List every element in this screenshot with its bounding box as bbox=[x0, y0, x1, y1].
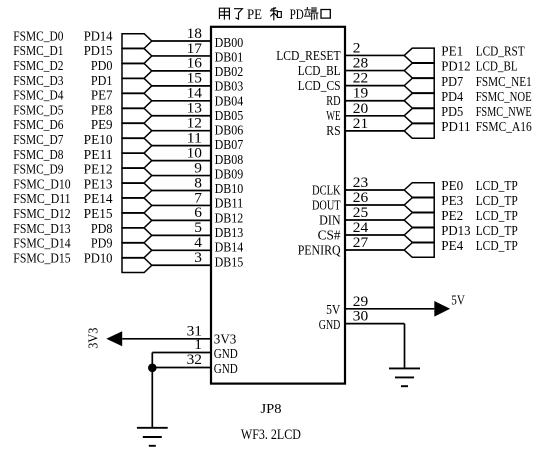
svg-text:10: 10 bbox=[187, 145, 202, 161]
svg-text:FSMC_D8: FSMC_D8 bbox=[13, 147, 63, 162]
svg-text:15: 15 bbox=[187, 71, 202, 87]
svg-text:3: 3 bbox=[194, 250, 202, 266]
svg-text:PD14: PD14 bbox=[84, 28, 113, 43]
svg-text:DB09: DB09 bbox=[215, 166, 244, 181]
svg-text:8: 8 bbox=[194, 175, 202, 191]
svg-text:LCD_BL: LCD_BL bbox=[476, 59, 518, 74]
svg-text:FSMC_D12: FSMC_D12 bbox=[13, 206, 70, 221]
svg-text:29: 29 bbox=[353, 294, 368, 310]
svg-text:LCD_CS: LCD_CS bbox=[298, 78, 341, 93]
svg-text:LCD_TP: LCD_TP bbox=[476, 238, 518, 253]
svg-text:PE4: PE4 bbox=[441, 238, 463, 253]
svg-text:FSMC_D4: FSMC_D4 bbox=[13, 88, 63, 103]
svg-text:FSMC_D10: FSMC_D10 bbox=[13, 176, 71, 191]
svg-text:LCD_RESET: LCD_RESET bbox=[276, 48, 340, 63]
svg-text:FSMC_NE1: FSMC_NE1 bbox=[476, 74, 532, 89]
svg-text:23: 23 bbox=[353, 175, 368, 191]
svg-text:30: 30 bbox=[353, 309, 368, 325]
svg-text:13: 13 bbox=[187, 101, 202, 117]
svg-text:DB15: DB15 bbox=[215, 254, 244, 269]
svg-text:3V3: 3V3 bbox=[214, 332, 237, 347]
svg-text:PENIRQ: PENIRQ bbox=[298, 242, 341, 257]
svg-text:PD15: PD15 bbox=[84, 43, 113, 58]
svg-text:6: 6 bbox=[194, 205, 202, 221]
svg-text:26: 26 bbox=[353, 190, 368, 206]
svg-text:GND: GND bbox=[214, 346, 238, 361]
svg-text:PD4: PD4 bbox=[441, 89, 463, 104]
svg-text:LCD_TP: LCD_TP bbox=[476, 193, 518, 208]
svg-text:DIN: DIN bbox=[319, 212, 341, 227]
svg-text:DB07: DB07 bbox=[215, 137, 244, 152]
svg-text:PD: PD bbox=[290, 7, 304, 23]
svg-text:DB06: DB06 bbox=[215, 123, 244, 138]
svg-text:PE9: PE9 bbox=[91, 117, 113, 132]
svg-text:DB11: DB11 bbox=[215, 196, 244, 211]
svg-text:PE0: PE0 bbox=[441, 178, 463, 193]
svg-text:LCD_TP: LCD_TP bbox=[476, 178, 518, 193]
svg-text:JP8: JP8 bbox=[261, 402, 282, 417]
svg-text:FSMC_D7: FSMC_D7 bbox=[13, 132, 63, 147]
svg-text:DB08: DB08 bbox=[215, 152, 244, 167]
svg-text:1: 1 bbox=[194, 337, 202, 353]
svg-text:9: 9 bbox=[194, 160, 202, 176]
svg-text:FSMC_D14: FSMC_D14 bbox=[13, 236, 71, 251]
svg-text:FSMC_D3: FSMC_D3 bbox=[13, 73, 63, 88]
svg-text:PE10: PE10 bbox=[84, 132, 113, 147]
svg-text:PD13: PD13 bbox=[441, 223, 471, 238]
svg-text:FSMC_D2: FSMC_D2 bbox=[13, 58, 63, 73]
svg-text:PE11: PE11 bbox=[84, 147, 113, 162]
svg-text:FSMC_D5: FSMC_D5 bbox=[13, 102, 63, 117]
svg-text:19: 19 bbox=[353, 86, 368, 102]
svg-text:PE14: PE14 bbox=[84, 191, 113, 206]
svg-text:PD5: PD5 bbox=[441, 104, 463, 119]
svg-text:27: 27 bbox=[353, 235, 368, 251]
svg-text:FSMC_D1: FSMC_D1 bbox=[13, 43, 63, 58]
svg-text:PE13: PE13 bbox=[84, 176, 113, 191]
svg-text:PD0: PD0 bbox=[91, 58, 113, 73]
svg-text:FSMC_D11: FSMC_D11 bbox=[13, 191, 70, 206]
svg-text:5V: 5V bbox=[451, 293, 465, 308]
svg-text:FSMC_A16: FSMC_A16 bbox=[476, 119, 532, 134]
svg-text:18: 18 bbox=[187, 26, 202, 42]
svg-text:PD7: PD7 bbox=[441, 74, 463, 89]
svg-text:LCD_BL: LCD_BL bbox=[298, 63, 341, 78]
svg-text:PE2: PE2 bbox=[441, 208, 463, 223]
svg-text:PE3: PE3 bbox=[441, 193, 463, 208]
svg-text:DB10: DB10 bbox=[215, 181, 244, 196]
svg-text:22: 22 bbox=[353, 71, 368, 87]
svg-text:DOUT: DOUT bbox=[312, 197, 341, 212]
svg-text:FSMC_D15: FSMC_D15 bbox=[13, 250, 71, 265]
svg-text:LCD_TP: LCD_TP bbox=[476, 208, 518, 223]
svg-text:11: 11 bbox=[187, 130, 202, 146]
svg-text:32: 32 bbox=[187, 352, 202, 368]
svg-text:PD8: PD8 bbox=[91, 221, 113, 236]
svg-text:PE12: PE12 bbox=[84, 162, 113, 177]
svg-text:PE7: PE7 bbox=[91, 88, 113, 103]
svg-text:PE15: PE15 bbox=[84, 206, 113, 221]
svg-text:14: 14 bbox=[187, 86, 203, 102]
svg-text:RD: RD bbox=[326, 93, 340, 108]
svg-text:21: 21 bbox=[353, 116, 368, 132]
svg-text:DB03: DB03 bbox=[215, 79, 244, 94]
svg-text:20: 20 bbox=[353, 101, 368, 117]
svg-text:25: 25 bbox=[353, 205, 368, 221]
svg-text:WE: WE bbox=[326, 108, 340, 123]
svg-text:24: 24 bbox=[353, 220, 369, 236]
svg-text:FSMC_D9: FSMC_D9 bbox=[13, 162, 63, 177]
svg-text:FSMC_D0: FSMC_D0 bbox=[13, 28, 63, 43]
svg-text:7: 7 bbox=[194, 190, 202, 206]
svg-text:PD12: PD12 bbox=[441, 59, 470, 74]
svg-text:PE8: PE8 bbox=[91, 102, 113, 117]
svg-text:DB14: DB14 bbox=[215, 240, 244, 255]
svg-text:DB13: DB13 bbox=[215, 225, 244, 240]
svg-text:LCD_TP: LCD_TP bbox=[476, 223, 518, 238]
svg-text:DB12: DB12 bbox=[215, 210, 244, 225]
svg-text:12: 12 bbox=[187, 116, 202, 132]
svg-text:4: 4 bbox=[194, 235, 202, 251]
svg-text:FSMC_D13: FSMC_D13 bbox=[13, 221, 71, 236]
svg-text:5: 5 bbox=[194, 220, 202, 236]
svg-text:CS#: CS# bbox=[318, 227, 341, 242]
svg-text:28: 28 bbox=[353, 56, 368, 72]
svg-text:DB01: DB01 bbox=[215, 49, 244, 64]
svg-text:RS: RS bbox=[326, 123, 340, 138]
svg-text:PD9: PD9 bbox=[91, 236, 113, 251]
svg-text:PD11: PD11 bbox=[441, 119, 470, 134]
svg-text:16: 16 bbox=[187, 56, 202, 72]
svg-text:DB05: DB05 bbox=[215, 108, 244, 123]
svg-text:WF3. 2LCD: WF3. 2LCD bbox=[241, 427, 301, 443]
svg-text:3V3: 3V3 bbox=[85, 327, 100, 348]
svg-text:LCD_RST: LCD_RST bbox=[476, 44, 525, 59]
svg-text:DCLK: DCLK bbox=[312, 182, 341, 197]
svg-text:PE: PE bbox=[247, 7, 262, 23]
svg-text:PE1: PE1 bbox=[441, 44, 463, 59]
svg-text:5V: 5V bbox=[326, 302, 341, 317]
svg-text:2: 2 bbox=[353, 40, 361, 56]
svg-text:PD10: PD10 bbox=[84, 250, 113, 265]
svg-text:DB02: DB02 bbox=[215, 64, 244, 79]
svg-text:FSMC_NOE: FSMC_NOE bbox=[476, 89, 532, 104]
svg-text:DB04: DB04 bbox=[215, 93, 244, 108]
svg-text:FSMC_D6: FSMC_D6 bbox=[13, 117, 63, 132]
svg-text:PD1: PD1 bbox=[91, 73, 113, 88]
svg-text:GND: GND bbox=[214, 361, 238, 376]
svg-text:DB00: DB00 bbox=[215, 35, 244, 50]
svg-text:GND: GND bbox=[319, 317, 341, 332]
svg-text:17: 17 bbox=[187, 41, 202, 57]
svg-text:FSMC_NWE: FSMC_NWE bbox=[476, 104, 532, 119]
